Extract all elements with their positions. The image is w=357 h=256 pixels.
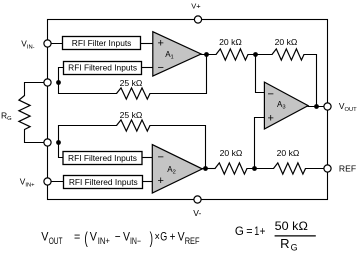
svg-text:R: R: [280, 237, 289, 251]
wire node D1 down to 25k row 1: [59, 83, 117, 94]
pin V_OUT: [324, 103, 331, 110]
RFI box 2: RFI Filtered Inputs: [64, 62, 142, 75]
op-amp A1: [153, 32, 201, 76]
svg-text:OUT: OUT: [49, 236, 63, 246]
wire box4 output to A2 + input: [143, 181, 153, 183]
pin V+: [194, 16, 201, 23]
resistor 25 kOhm (A1 feedback): [117, 88, 151, 99]
svg-text:V: V: [178, 229, 185, 243]
svg-text:20 kΩ: 20 kΩ: [275, 37, 298, 47]
svg-text:+: +: [158, 175, 164, 187]
wire node D1 to box2 input: [59, 68, 64, 83]
junction node D2 (R_G pin 2 internal): [56, 140, 61, 145]
svg-text:G: G: [291, 242, 298, 252]
svg-text:IN+: IN+: [98, 236, 110, 246]
wire R1 to node X1: [248, 54, 272, 56]
svg-text:V: V: [90, 229, 97, 243]
svg-text:50 kΩ: 50 kΩ: [275, 219, 308, 233]
wire 25k row2 to A2 output node: [150, 126, 206, 169]
svg-text:V-: V-: [193, 208, 201, 218]
svg-text:V: V: [123, 229, 130, 243]
svg-text:−: −: [158, 152, 164, 164]
svg-text:REF: REF: [185, 236, 200, 246]
svg-text:IN−: IN−: [130, 236, 141, 246]
junction node D1 (R_G pin 1 internal): [56, 80, 61, 85]
wire R4 to REF pin: [306, 168, 328, 170]
svg-text:REF: REF: [339, 164, 356, 174]
svg-text:RFI Filter Inputs: RFI Filter Inputs: [72, 38, 132, 48]
wire box3 output to A2 - input: [142, 157, 152, 159]
wire A3 + input to node X2: [255, 118, 265, 169]
svg-text:+: +: [260, 224, 266, 238]
RFI box 4: RFI Filtered Inputs: [64, 176, 143, 189]
wire node D2 up to 25k row 2: [59, 126, 117, 143]
svg-text:+: +: [158, 38, 164, 50]
op-amp A2: [152, 145, 202, 193]
wire box2 output to A1 - input: [142, 67, 153, 69]
wire A1 output to 20k R1: [201, 54, 216, 56]
svg-text:20 kΩ: 20 kΩ: [219, 37, 242, 47]
wire 25k row1 to A1 output node: [150, 55, 207, 94]
svg-text:=: =: [246, 224, 252, 238]
junction node X2: [252, 166, 257, 171]
svg-text:+: +: [170, 229, 176, 243]
svg-text:−: −: [158, 62, 164, 74]
svg-text:20 kΩ: 20 kΩ: [277, 148, 300, 158]
svg-text:−: −: [115, 229, 121, 243]
svg-text:×: ×: [155, 229, 160, 243]
wire node D2 down to box3 input: [59, 143, 64, 158]
svg-text:G: G: [235, 224, 244, 238]
svg-text:V: V: [41, 229, 48, 243]
wire R_G pin1 to external resistor R_G: [25, 83, 48, 96]
formula V_OUT = (V_IN+ - V_IN-) x G + V_REF: [41, 229, 200, 247]
pin R_G 2: [44, 139, 51, 146]
svg-text:=: =: [74, 229, 80, 243]
svg-text:25 kΩ: 25 kΩ: [120, 78, 143, 88]
resistor 20 kOhm R1 (top left): [216, 49, 248, 60]
wire box1 output to A1 + input: [141, 43, 153, 45]
junction node A3 output: [314, 104, 319, 109]
wire V_IN- pin to RFI box 1: [48, 43, 63, 45]
svg-text:RFI Filtered Inputs: RFI Filtered Inputs: [69, 177, 138, 187]
pin V_IN+: [44, 178, 51, 185]
package outline (IC boundary): [48, 20, 328, 200]
pin R_G 1: [44, 79, 51, 86]
resistor 20 kOhm R4 (bottom right): [274, 163, 306, 174]
RFI box 1: RFI Filter Inputs: [63, 37, 141, 50]
svg-text:(: (: [84, 230, 88, 248]
wire R_G resistor to R_G pin2: [25, 130, 48, 143]
junction node X1: [253, 52, 258, 57]
svg-text:−: −: [268, 88, 274, 100]
svg-text:RFI Filtered Inputs: RFI Filtered Inputs: [68, 63, 137, 73]
resistor 25 kOhm (A2 feedback): [117, 120, 151, 131]
pin V-: [194, 196, 201, 203]
wire A3 output to V_OUT pin: [308, 106, 327, 108]
pin V_IN-: [44, 40, 51, 47]
wire node X1 down to A3 - input: [256, 55, 265, 93]
resistor 20 kOhm R2 (top right): [272, 49, 304, 60]
wire R3 to node X2: [247, 168, 274, 170]
resistor 20 kOhm R3 (bottom left): [215, 163, 247, 174]
resistor R_G (external gain resistor): [19, 96, 30, 130]
op-amp A3: [264, 82, 308, 129]
junction node A2 output: [203, 166, 208, 171]
formula G = 1 + 50 kOhm / R_G: [235, 219, 316, 253]
wire A2 output to 20k R3: [202, 168, 215, 170]
pin REF: [324, 165, 331, 172]
svg-text:20 kΩ: 20 kΩ: [220, 148, 243, 158]
svg-text:V+: V+: [191, 1, 201, 10]
svg-text:): ): [150, 230, 153, 248]
svg-text:+: +: [268, 112, 274, 124]
wire 20k R2 to A3 output feedback: [304, 55, 317, 107]
svg-text:RFI Filtered Inputs: RFI Filtered Inputs: [68, 153, 137, 163]
junction node A1 output: [204, 52, 209, 57]
svg-text:G: G: [160, 229, 167, 243]
svg-text:25 kΩ: 25 kΩ: [120, 110, 143, 120]
RFI box 3: RFI Filtered Inputs: [63, 152, 142, 165]
wire V_IN+ pin to box4 input: [48, 181, 64, 183]
